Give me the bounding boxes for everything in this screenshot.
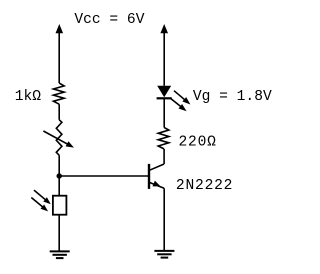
wire node to LDR bbox=[58, 176, 60, 196]
resistor R3 220 bbox=[158, 127, 169, 148]
wire node to base bbox=[59, 175, 148, 177]
svg-text:1kΩ: 1kΩ bbox=[15, 89, 42, 105]
svg-text:2N2222: 2N2222 bbox=[176, 178, 233, 194]
node junction bbox=[57, 173, 62, 178]
ground right bbox=[154, 251, 174, 258]
wire R1 to R2 bbox=[58, 104, 60, 120]
wire emitter to ground bbox=[163, 188, 165, 251]
wire LED to R3 bbox=[163, 98, 165, 127]
variable resistor R2 bbox=[43, 120, 74, 156]
photoresistor LDR bbox=[31, 190, 66, 215]
svg-text:Vg = 1.8V: Vg = 1.8V bbox=[193, 89, 272, 105]
wire R3 to collector bbox=[163, 149, 165, 164]
LED D1 bbox=[157, 86, 191, 111]
svg-text:Vcc = 6V: Vcc = 6V bbox=[74, 12, 144, 28]
wire LDR to ground bbox=[58, 215, 60, 252]
power arrow right Vcc bbox=[160, 24, 168, 86]
wire R2 to node bbox=[58, 155, 60, 176]
resistor R1 1k bbox=[53, 83, 64, 104]
power arrow left Vcc bbox=[56, 24, 64, 83]
svg-text:220Ω: 220Ω bbox=[179, 134, 217, 150]
ground left bbox=[50, 251, 70, 258]
transistor Q1 bbox=[149, 164, 164, 189]
